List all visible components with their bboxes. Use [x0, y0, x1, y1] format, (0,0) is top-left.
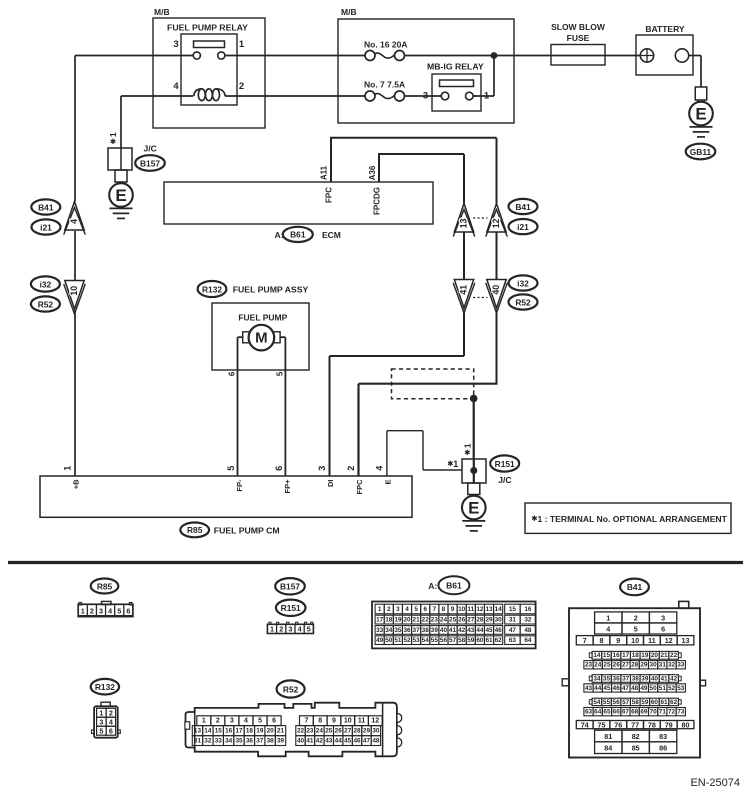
svg-text:J/C: J/C: [144, 144, 157, 154]
svg-text:38: 38: [632, 675, 640, 682]
svg-text:M/B: M/B: [154, 7, 170, 17]
svg-text:42: 42: [316, 738, 324, 745]
svg-text:44: 44: [594, 685, 602, 692]
svg-text:33: 33: [677, 662, 685, 669]
svg-text:3: 3: [288, 625, 292, 634]
svg-text:17: 17: [622, 652, 630, 659]
svg-text:69: 69: [640, 709, 648, 716]
svg-text:32: 32: [204, 738, 212, 745]
svg-text:6: 6: [661, 624, 665, 633]
svg-text:18: 18: [246, 728, 254, 735]
svg-text:29: 29: [485, 617, 493, 624]
svg-text:5: 5: [99, 727, 103, 736]
svg-text:E: E: [384, 480, 393, 485]
svg-text:6: 6: [228, 371, 237, 376]
svg-text:FUEL PUMP RELAY: FUEL PUMP RELAY: [167, 23, 248, 33]
svg-text:2: 2: [90, 606, 94, 615]
svg-text:43: 43: [585, 685, 593, 692]
svg-text:4: 4: [108, 606, 112, 615]
svg-text:12: 12: [371, 718, 379, 725]
svg-text:48: 48: [631, 685, 639, 692]
svg-text:62: 62: [670, 699, 678, 706]
svg-text:FP-: FP-: [235, 479, 244, 492]
svg-text:26: 26: [613, 662, 621, 669]
svg-text:35: 35: [235, 738, 243, 745]
svg-text:41: 41: [459, 285, 469, 295]
svg-text:63: 63: [509, 637, 517, 644]
svg-text:R151: R151: [495, 459, 515, 469]
svg-text:70: 70: [650, 709, 658, 716]
svg-text:33: 33: [376, 627, 384, 634]
svg-text:21: 21: [413, 617, 421, 624]
svg-text:55: 55: [603, 699, 611, 706]
svg-text:4: 4: [375, 466, 385, 471]
svg-text:20: 20: [651, 652, 659, 659]
svg-text:BATTERY: BATTERY: [645, 24, 685, 34]
svg-text:24: 24: [594, 662, 602, 669]
svg-text:32: 32: [524, 617, 532, 624]
svg-text:10: 10: [631, 636, 639, 645]
svg-text:15: 15: [215, 728, 223, 735]
svg-text:1: 1: [63, 466, 73, 471]
svg-text:8: 8: [600, 636, 604, 645]
svg-text:No. 16 20A: No. 16 20A: [364, 40, 407, 50]
svg-text:15: 15: [603, 652, 611, 659]
svg-text:46: 46: [613, 685, 621, 692]
svg-text:B157: B157: [140, 158, 160, 168]
svg-text:31: 31: [659, 662, 667, 669]
svg-text:1: 1: [484, 91, 490, 102]
svg-text:4: 4: [173, 81, 179, 92]
svg-text:17: 17: [376, 617, 384, 624]
svg-text:6: 6: [126, 606, 130, 615]
svg-text:57: 57: [449, 637, 457, 644]
svg-text:58: 58: [458, 637, 466, 644]
svg-text:11: 11: [467, 606, 474, 613]
svg-text:31: 31: [509, 617, 517, 624]
svg-text:28: 28: [476, 617, 484, 624]
svg-text:72: 72: [668, 709, 676, 716]
svg-text:B41: B41: [515, 202, 531, 212]
svg-text:75: 75: [598, 721, 606, 730]
svg-text:65: 65: [603, 709, 611, 716]
svg-text:24: 24: [440, 617, 448, 624]
svg-text:36: 36: [403, 627, 411, 634]
svg-text:16: 16: [524, 606, 532, 613]
svg-text:41: 41: [660, 675, 668, 682]
svg-text:B157: B157: [280, 582, 300, 592]
svg-text:R52: R52: [283, 684, 299, 694]
svg-text:81: 81: [604, 732, 612, 741]
svg-text:64: 64: [594, 709, 602, 716]
svg-text:26: 26: [458, 617, 466, 624]
svg-text:FP+: FP+: [283, 479, 292, 494]
svg-text:47: 47: [509, 627, 517, 634]
svg-text:1: 1: [99, 709, 103, 718]
svg-text:77: 77: [631, 721, 639, 730]
svg-text:1: 1: [239, 39, 245, 50]
svg-text:2: 2: [387, 606, 391, 613]
svg-text:30: 30: [372, 728, 380, 735]
svg-text:i32: i32: [517, 278, 529, 288]
svg-text:35: 35: [603, 675, 611, 682]
svg-text:56: 56: [613, 699, 621, 706]
svg-text:45: 45: [603, 685, 611, 692]
svg-text:20: 20: [267, 728, 275, 735]
svg-text:25: 25: [325, 728, 333, 735]
svg-text:E: E: [115, 186, 126, 205]
svg-text:64: 64: [524, 637, 532, 644]
svg-text:85: 85: [632, 744, 640, 753]
svg-text:52: 52: [668, 685, 676, 692]
svg-text:39: 39: [431, 627, 439, 634]
svg-text:R132: R132: [95, 682, 115, 692]
svg-text:40: 40: [297, 738, 305, 745]
svg-text:19: 19: [641, 652, 649, 659]
svg-text:25: 25: [603, 662, 611, 669]
svg-text:39: 39: [641, 675, 649, 682]
svg-text:22: 22: [297, 728, 305, 735]
svg-text:18: 18: [632, 652, 640, 659]
svg-text:R151: R151: [281, 603, 301, 613]
svg-text:FUEL PUMP ASSY: FUEL PUMP ASSY: [233, 285, 309, 295]
svg-text:30: 30: [650, 662, 658, 669]
svg-text:E: E: [695, 105, 706, 124]
svg-text:4: 4: [405, 606, 409, 613]
svg-text:29: 29: [640, 662, 648, 669]
svg-text:2: 2: [634, 613, 638, 622]
svg-text:27: 27: [622, 662, 630, 669]
svg-text:57: 57: [622, 699, 630, 706]
svg-text:FUEL PUMP: FUEL PUMP: [238, 313, 287, 323]
svg-text:34: 34: [593, 675, 601, 682]
svg-text:B61: B61: [290, 230, 306, 240]
svg-text:1: 1: [81, 606, 85, 615]
svg-text:1: 1: [202, 718, 206, 725]
svg-text:FPCDG: FPCDG: [372, 187, 381, 215]
svg-text:6: 6: [423, 606, 427, 613]
svg-text:23: 23: [306, 728, 314, 735]
svg-text:6: 6: [274, 466, 284, 471]
svg-text:13: 13: [459, 218, 469, 228]
svg-text:24: 24: [316, 728, 324, 735]
svg-text:40: 40: [491, 285, 501, 295]
svg-text:23: 23: [585, 662, 593, 669]
svg-text:43: 43: [325, 738, 333, 745]
svg-text:MB-IG RELAY: MB-IG RELAY: [427, 62, 484, 72]
svg-text:i21: i21: [517, 222, 529, 232]
svg-text:B41: B41: [627, 582, 643, 592]
svg-text:60: 60: [476, 637, 484, 644]
svg-text:33: 33: [215, 738, 223, 745]
svg-text:82: 82: [632, 732, 640, 741]
svg-text:EN-25074: EN-25074: [690, 777, 740, 789]
svg-text:R52: R52: [38, 299, 54, 309]
svg-text:FPC: FPC: [355, 479, 364, 495]
svg-text:B61: B61: [446, 581, 462, 591]
svg-text:86: 86: [659, 744, 667, 753]
svg-text:1: 1: [462, 443, 472, 448]
svg-text:45: 45: [485, 627, 493, 634]
svg-text:M: M: [255, 330, 268, 347]
svg-text:22: 22: [670, 652, 678, 659]
svg-text:38: 38: [267, 738, 275, 745]
svg-text:28: 28: [353, 728, 361, 735]
svg-text:3: 3: [99, 606, 103, 615]
svg-text:5: 5: [276, 371, 285, 376]
svg-text:44: 44: [476, 627, 484, 634]
svg-text:38: 38: [422, 627, 430, 634]
svg-text:A11: A11: [320, 165, 329, 180]
svg-text:13: 13: [485, 606, 493, 613]
svg-text:R85: R85: [97, 581, 113, 591]
svg-text:19: 19: [394, 617, 402, 624]
svg-text:3: 3: [661, 613, 665, 622]
svg-text:+B: +B: [72, 479, 81, 489]
svg-text:21: 21: [660, 652, 668, 659]
svg-text:41: 41: [449, 627, 457, 634]
svg-text:9: 9: [332, 718, 336, 725]
svg-text:61: 61: [485, 637, 493, 644]
svg-text:40: 40: [651, 675, 659, 682]
svg-text:4: 4: [69, 219, 79, 224]
svg-text:27: 27: [344, 728, 352, 735]
svg-text:SLOW BLOW: SLOW BLOW: [551, 22, 606, 32]
svg-text:16: 16: [613, 652, 621, 659]
svg-text:37: 37: [413, 627, 421, 634]
svg-text:9: 9: [616, 636, 620, 645]
svg-text:61: 61: [660, 699, 668, 706]
svg-text:13: 13: [194, 728, 202, 735]
svg-text:40: 40: [440, 627, 448, 634]
svg-text:5: 5: [414, 606, 418, 613]
svg-text:3: 3: [173, 39, 178, 50]
svg-text:74: 74: [581, 721, 589, 730]
svg-text:16: 16: [225, 728, 233, 735]
svg-text:58: 58: [632, 699, 640, 706]
svg-text:3: 3: [230, 718, 234, 725]
svg-text:68: 68: [631, 709, 639, 716]
svg-text:48: 48: [524, 627, 532, 634]
svg-text:FUSE: FUSE: [567, 33, 590, 43]
svg-text:J/C: J/C: [498, 475, 511, 485]
svg-text:21: 21: [277, 728, 285, 735]
svg-text:31: 31: [194, 738, 202, 745]
svg-text:GB11: GB11: [690, 147, 712, 157]
svg-text:23: 23: [431, 617, 439, 624]
svg-text:76: 76: [614, 721, 622, 730]
svg-text:3: 3: [317, 466, 327, 471]
svg-text:32: 32: [668, 662, 676, 669]
svg-text:E: E: [468, 499, 479, 518]
svg-text:14: 14: [495, 606, 503, 613]
svg-text:71: 71: [659, 709, 667, 716]
svg-text:37: 37: [622, 675, 630, 682]
svg-text:36: 36: [246, 738, 254, 745]
svg-text:43: 43: [467, 627, 475, 634]
svg-text:DI: DI: [326, 480, 335, 488]
svg-text:5: 5: [634, 624, 638, 633]
svg-text:47: 47: [622, 685, 630, 692]
svg-text:12: 12: [665, 636, 673, 645]
svg-text:20: 20: [403, 617, 411, 624]
svg-text:2: 2: [279, 625, 283, 634]
svg-text:19: 19: [256, 728, 264, 735]
svg-text:B41: B41: [38, 202, 54, 212]
svg-text:51: 51: [394, 637, 402, 644]
svg-text:FPC: FPC: [324, 187, 333, 203]
svg-text:54: 54: [593, 699, 601, 706]
svg-text:A:: A:: [428, 581, 437, 591]
svg-text:5: 5: [307, 625, 311, 634]
svg-text:42: 42: [670, 675, 678, 682]
svg-text:i21: i21: [40, 222, 52, 232]
svg-text:48: 48: [372, 738, 380, 745]
svg-text:10: 10: [344, 718, 352, 725]
svg-text:34: 34: [225, 738, 233, 745]
svg-text:13: 13: [682, 636, 690, 645]
svg-text:4: 4: [244, 718, 248, 725]
svg-text:34: 34: [385, 627, 393, 634]
svg-text:42: 42: [458, 627, 466, 634]
svg-text:35: 35: [394, 627, 402, 634]
svg-text:R85: R85: [187, 525, 203, 535]
svg-text:59: 59: [641, 699, 649, 706]
svg-text:2: 2: [216, 718, 220, 725]
svg-text:5: 5: [226, 466, 236, 471]
svg-text:3: 3: [423, 91, 428, 102]
svg-text:10: 10: [69, 286, 79, 296]
svg-text:6: 6: [109, 727, 113, 736]
svg-text:36: 36: [613, 675, 621, 682]
svg-text:37: 37: [256, 738, 264, 745]
svg-text:52: 52: [403, 637, 411, 644]
svg-text:14: 14: [204, 728, 212, 735]
svg-text:78: 78: [648, 721, 656, 730]
svg-text:5: 5: [258, 718, 262, 725]
svg-text:8: 8: [442, 606, 446, 613]
svg-text:53: 53: [413, 637, 421, 644]
svg-text:A36: A36: [368, 165, 377, 180]
svg-text:18: 18: [385, 617, 393, 624]
svg-text:39: 39: [277, 738, 285, 745]
svg-text:55: 55: [431, 637, 439, 644]
svg-text:30: 30: [495, 617, 503, 624]
svg-text:2: 2: [109, 709, 113, 718]
svg-text:11: 11: [648, 636, 656, 645]
svg-text:44: 44: [335, 738, 343, 745]
svg-text:67: 67: [622, 709, 630, 716]
svg-text:2: 2: [239, 81, 244, 92]
svg-text:51: 51: [659, 685, 667, 692]
svg-text:79: 79: [665, 721, 673, 730]
svg-text:83: 83: [659, 732, 667, 741]
svg-text:62: 62: [495, 637, 503, 644]
svg-text:R52: R52: [515, 297, 531, 307]
svg-text:3: 3: [99, 718, 103, 727]
svg-text:41: 41: [306, 738, 314, 745]
svg-text:22: 22: [422, 617, 430, 624]
svg-text:12: 12: [476, 606, 484, 613]
svg-text:7: 7: [433, 606, 437, 613]
svg-text:6: 6: [272, 718, 276, 725]
svg-text:7: 7: [583, 636, 587, 645]
svg-text:11: 11: [358, 718, 366, 725]
svg-text:60: 60: [651, 699, 659, 706]
svg-text:ECM: ECM: [322, 230, 341, 240]
svg-text:63: 63: [585, 709, 593, 716]
svg-text:25: 25: [449, 617, 457, 624]
svg-text:4: 4: [606, 624, 610, 633]
svg-text:46: 46: [495, 627, 503, 634]
svg-text:5: 5: [117, 606, 121, 615]
svg-text:4: 4: [109, 718, 113, 727]
svg-text:49: 49: [376, 637, 384, 644]
svg-text:53: 53: [677, 685, 685, 692]
svg-text:27: 27: [467, 617, 475, 624]
svg-text:8: 8: [318, 718, 322, 725]
svg-text:46: 46: [353, 738, 361, 745]
svg-text:80: 80: [682, 721, 690, 730]
svg-text:29: 29: [363, 728, 371, 735]
svg-text:2: 2: [346, 466, 356, 471]
svg-text:1: 1: [270, 625, 274, 634]
svg-text:14: 14: [593, 652, 601, 659]
svg-text:84: 84: [604, 744, 612, 753]
svg-text:9: 9: [451, 606, 455, 613]
svg-text:R132: R132: [202, 284, 222, 294]
svg-text:12: 12: [491, 218, 501, 228]
svg-text:No. 7 7.5A: No. 7 7.5A: [364, 80, 405, 90]
svg-text:10: 10: [458, 606, 466, 613]
svg-text:45: 45: [344, 738, 352, 745]
svg-text:1: 1: [606, 613, 610, 622]
svg-text:1: 1: [453, 459, 458, 469]
svg-text:1: 1: [108, 132, 118, 137]
svg-text:59: 59: [467, 637, 475, 644]
svg-text:i32: i32: [40, 279, 52, 289]
svg-text:17: 17: [235, 728, 243, 735]
svg-text:28: 28: [631, 662, 639, 669]
svg-text:54: 54: [422, 637, 430, 644]
svg-text:4: 4: [298, 625, 302, 634]
svg-text:15: 15: [509, 606, 517, 613]
svg-text:1 : TERMINAL No. OPTIONAL ARRA: 1 : TERMINAL No. OPTIONAL ARRANGEMENT: [538, 514, 728, 524]
svg-text:73: 73: [677, 709, 685, 716]
svg-text:3: 3: [396, 606, 400, 613]
svg-text:FUEL PUMP CM: FUEL PUMP CM: [214, 526, 280, 536]
svg-text:M/B: M/B: [341, 7, 357, 17]
svg-text:50: 50: [650, 685, 658, 692]
svg-text:47: 47: [363, 738, 371, 745]
svg-text:66: 66: [613, 709, 621, 716]
svg-text:7: 7: [304, 718, 308, 725]
svg-text:56: 56: [440, 637, 448, 644]
svg-text:1: 1: [378, 606, 382, 613]
svg-text:50: 50: [385, 637, 393, 644]
svg-text:26: 26: [335, 728, 343, 735]
svg-text:49: 49: [640, 685, 648, 692]
